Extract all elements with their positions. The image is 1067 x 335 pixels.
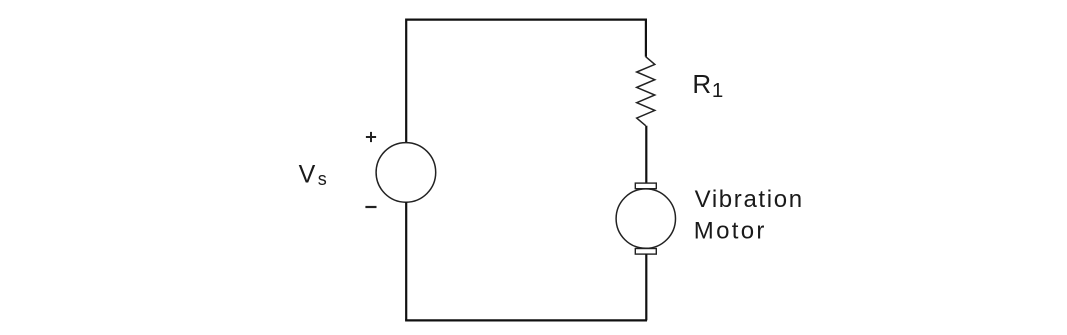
svg-text:Motor: Motor	[694, 218, 767, 245]
label Vs	[299, 160, 327, 189]
voltage source Vs circle	[376, 143, 436, 203]
wire right vertical middle	[645, 126, 647, 184]
wire left vertical lower	[405, 202, 407, 320]
wire left vertical upper	[405, 19, 407, 143]
resistor R1	[637, 57, 655, 126]
label Vibration Motor	[694, 186, 804, 245]
wire top rail	[406, 19, 646, 21]
wire right vertical upper	[645, 19, 647, 57]
svg-text:V: V	[299, 160, 316, 188]
- polarity mark	[365, 206, 376, 208]
svg-text:R: R	[692, 69, 711, 99]
label R1	[692, 69, 723, 102]
vibration motor M1	[616, 183, 675, 254]
svg-text:Vibration: Vibration	[695, 186, 804, 213]
wire bottom rail	[405, 319, 647, 321]
wire right vertical lower	[645, 254, 647, 320]
svg-text:1: 1	[712, 79, 723, 102]
+ polarity mark	[366, 132, 376, 142]
svg-text:s: s	[318, 169, 327, 189]
